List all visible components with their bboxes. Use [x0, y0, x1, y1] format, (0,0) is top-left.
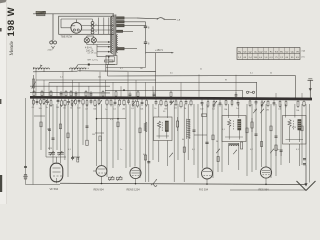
wire box vertical 1: [98, 18, 100, 35]
ground symbol: [297, 165, 316, 191]
transformer T1 secondary 1: [117, 17, 125, 19]
vertical wires bundle: [26, 98, 310, 185]
wire box internal 2: [82, 29, 114, 31]
antenna symbol: [308, 79, 314, 99]
wire rail C right: [108, 74, 296, 77]
potentiometer P2 coupling: [109, 176, 115, 180]
switch S2 pickup: [246, 91, 254, 93]
wire box internal 1: [82, 25, 114, 27]
svg-text:RENS 1204: RENS 1204: [127, 188, 141, 191]
title Mende: [9, 40, 15, 55]
scan mark left edge lower: [0, 175, 2, 192]
transformer terminal box: [106, 56, 117, 65]
title 198 W: [5, 7, 16, 37]
wire B+ out: [146, 52, 174, 54]
IF transformer box 2: [222, 116, 246, 142]
wire mid link 2: [96, 118, 126, 120]
wires heater taps with arrows: [97, 41, 111, 58]
wire HT line: [137, 17, 158, 20]
svg-text:0,5: 0,5: [63, 108, 66, 110]
trimmer C34 above V5: [270, 149, 274, 153]
capacitor C3 smoothing: [144, 22, 150, 42]
IF transformer box 1: [154, 117, 173, 141]
wire rail E: [49, 81, 257, 83]
svg-text:NF/ 1,2 V=: NF/ 1,2 V=: [88, 60, 99, 62]
svg-text:1n: 1n: [236, 108, 238, 110]
transformer T1 core: [114, 15, 116, 56]
svg-text:REN 904: REN 904: [94, 188, 105, 191]
svg-text:50k: 50k: [296, 110, 299, 112]
transformer T1 secondary 3: [117, 24, 125, 26]
wire below transformer: [106, 54, 146, 72]
svg-text:0,2: 0,2: [85, 109, 88, 111]
svg-text:0,5: 0,5: [174, 108, 177, 110]
antenna coil L2: [34, 65, 50, 72]
wire box top internal: [61, 18, 93, 20]
resistor R31 left column: [23, 175, 28, 180]
wire below IF3 b: [298, 144, 300, 166]
capacitor C33 above V5: [280, 150, 283, 156]
svg-text:2n: 2n: [200, 69, 202, 71]
wire terminal box drop: [107, 65, 109, 77]
svg-text:0,1: 0,1: [120, 68, 123, 70]
junction dots: [45, 96, 310, 99]
wire rail A: [78, 64, 116, 66]
wire below IF2 b: [238, 143, 240, 170]
potentiometer P1: [32, 75, 36, 93]
wire rail D: [36, 79, 156, 81]
resistor R1 horizontal: [105, 60, 114, 65]
resistor R21 beside IF2: [251, 118, 253, 132]
svg-text:RES 964: RES 964: [259, 189, 270, 192]
wire below IF1 a: [158, 141, 160, 163]
svg-text:0,1: 0,1: [60, 77, 63, 79]
choke L11 ladder: [186, 119, 190, 139]
wire secondary1 out: [124, 17, 137, 19]
scan mark top-left corner: [0, 0, 7, 3]
svg-text:0,5: 0,5: [170, 73, 173, 75]
transformer T1 heater winding: [117, 35, 118, 53]
wire B+ drop: [155, 53, 157, 98]
transformer T1 primary winding: [111, 16, 113, 54]
capacitor C1 block: [91, 19, 97, 27]
wire box left internal: [60, 19, 62, 28]
wire bus companion: [30, 92, 110, 94]
coil L10 grid: [229, 142, 243, 154]
svg-text:2M: 2M: [47, 129, 50, 131]
svg-text:220V: 220V: [48, 50, 54, 52]
wire rail G: [105, 89, 243, 91]
wire lamps: [87, 36, 110, 45]
wire bottom left: [26, 184, 61, 186]
wire box vertical 3: [108, 18, 110, 35]
svg-text:0,1: 0,1: [278, 109, 281, 111]
tube V1 tetrode: [50, 163, 63, 183]
svg-text:50k: 50k: [140, 108, 143, 110]
resistor R36 horizontal: [202, 114, 207, 116]
wire box vertical 2: [103, 18, 105, 35]
resistor R33 above V4: [217, 157, 219, 162]
switch S1: [157, 18, 176, 20]
potentiometer P3 coupling: [117, 176, 123, 180]
svg-text:0,1: 0,1: [250, 73, 253, 75]
component row left of V1: [71, 156, 80, 162]
wire secondary2 out: [124, 21, 145, 23]
wire stubs rails to bus: [36, 72, 302, 99]
component row below bus: [32, 99, 305, 113]
svg-text:0,2: 0,2: [212, 108, 215, 110]
transformer T1 secondary 5: [117, 48, 125, 50]
wire mains corner: [112, 14, 114, 17]
svg-text:5k: 5k: [70, 107, 72, 109]
svg-text:R E 034: R E 034: [199, 189, 209, 192]
svg-text:50k: 50k: [98, 77, 101, 79]
wire tube left: [61, 27, 71, 29]
scan mark left edge upper: [0, 28, 2, 32]
wire below IF2 a: [228, 143, 230, 165]
capacitor C4 smoothing: [144, 42, 150, 54]
trimmer C20 between: [253, 109, 264, 113]
svg-text:30k: 30k: [224, 109, 227, 111]
svg-text:100: 100: [77, 108, 80, 110]
capacitor C2 block: [91, 28, 97, 34]
wire rail C corner: [294, 75, 296, 99]
left page edge crease: [6, 0, 8, 204]
IF transformer box 3: [283, 116, 307, 145]
wire rail B left: [33, 70, 78, 73]
tube V4 triode: [202, 168, 213, 184]
wire secondary5 out: [124, 48, 137, 50]
fuse Si: [48, 40, 57, 52]
svg-text:Mende: Mende: [9, 40, 15, 55]
transformer T1 secondary 4: [117, 30, 123, 32]
svg-text:5k: 5k: [184, 108, 186, 110]
trimmer C11: [57, 151, 64, 155]
resistor R30 on vert: [86, 140, 88, 145]
jack J1 phones: [151, 179, 157, 186]
svg-text:o,5 nF o,5: o,5 nF o,5: [88, 52, 98, 54]
svg-text:(V): (V): [302, 57, 305, 59]
rectifier box outline: [59, 16, 114, 34]
wire rail E corner: [256, 82, 258, 98]
tube V2 triode: [93, 166, 107, 184]
svg-text:4k: 4k: [182, 139, 184, 141]
svg-text:An: An: [40, 64, 42, 67]
wire mains top: [33, 13, 114, 15]
svg-text:2n: 2n: [154, 108, 156, 110]
svg-text:+150 V: +150 V: [155, 49, 163, 52]
wire mid link 3: [194, 134, 207, 136]
tube V5 output: [260, 167, 271, 184]
lamp La2: [91, 38, 96, 43]
wire mains drop: [52, 14, 54, 40]
coil L12 on vertical: [144, 122, 147, 132]
wire secondary3 out: [124, 25, 145, 27]
wire heater bus: [60, 183, 306, 184]
resistor R20 beside IF1: [177, 117, 179, 131]
resistor R35: [183, 147, 185, 152]
table tube voltages: [237, 48, 300, 60]
resistor R32 mid bottom: [144, 155, 146, 160]
svg-text:30k: 30k: [93, 109, 96, 111]
wire bottom right lower: [230, 189, 306, 191]
junction rail A: [88, 64, 90, 66]
svg-text:TBE RZW: TBE RZW: [61, 35, 73, 39]
wire rail G corner: [242, 90, 244, 98]
trimmer arrow P4: [169, 153, 173, 157]
wire below IF1 b: [167, 141, 169, 167]
component row above bus: [33, 90, 237, 99]
mid components on verticals: [40, 122, 303, 141]
trimmer C12: [216, 149, 220, 153]
svg-text:0,1: 0,1: [113, 108, 116, 110]
svg-text:0,1: 0,1: [131, 108, 134, 110]
wire below IF3 a: [289, 144, 291, 163]
scan mark left edge middle: [0, 99, 1, 104]
svg-text:VF 594: VF 594: [50, 187, 59, 191]
svg-text:2M: 2M: [122, 108, 125, 110]
tube V3 pentode: [130, 167, 141, 183]
svg-text:2n: 2n: [120, 149, 122, 151]
svg-text:5k: 5k: [270, 73, 272, 75]
wire rail B: [78, 70, 156, 73]
svg-text:mA: mA: [302, 50, 306, 53]
wire mid link 2b: [95, 132, 104, 134]
wire rail F: [30, 85, 110, 87]
svg-text:1n: 1n: [277, 149, 279, 151]
lamp La1: [84, 38, 89, 43]
capacitor C31 right: [303, 159, 306, 165]
resistor R34 above V5: [275, 145, 277, 156]
transformer T1 secondary 2: [117, 21, 125, 23]
capacitor C35 on anode line: [205, 142, 208, 143]
svg-text:100: 100: [200, 108, 203, 110]
trimmer C10: [49, 151, 56, 155]
svg-text:1M: 1M: [56, 107, 59, 109]
svg-text:W: W: [225, 80, 227, 82]
wire mid link 1: [34, 115, 45, 117]
svg-text:198 W: 198 W: [5, 7, 16, 37]
svg-text:1M: 1M: [140, 68, 143, 70]
wire secondary4 out: [123, 30, 133, 32]
antenna coil L3: [70, 65, 86, 72]
rectifier tube V6: [71, 20, 82, 34]
resistor R37: [261, 142, 263, 147]
svg-text:2M: 2M: [266, 110, 269, 112]
svg-text:50k: 50k: [39, 108, 42, 110]
svg-text:a.A: a.A: [177, 18, 181, 21]
wire main bus thick: [30, 97, 312, 99]
junction dots heater: [101, 183, 267, 185]
wire grid V1: [46, 157, 66, 163]
capacitor C32 mid bottom: [147, 162, 150, 163]
svg-text:1M: 1M: [92, 134, 95, 136]
svg-text:5k: 5k: [216, 141, 218, 143]
capacitor C30 left column: [24, 166, 27, 168]
inductor L1 mains choke: [36, 11, 46, 16]
